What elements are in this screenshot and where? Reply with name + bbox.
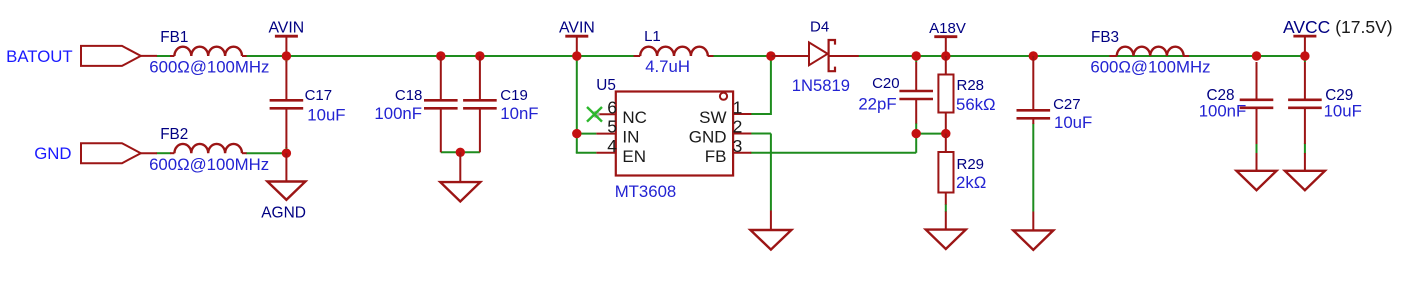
wire <box>246 152 288 154</box>
svg-text:C19: C19 <box>500 87 528 104</box>
svg-text:AVCC (17.5V): AVCC (17.5V) <box>1283 17 1393 37</box>
pin 3 FB <box>733 152 751 154</box>
capacitor C20 <box>915 62 917 90</box>
svg-text:100nF: 100nF <box>1199 102 1247 121</box>
node A18V junction <box>941 51 950 60</box>
pin 6 NC <box>596 113 615 115</box>
wire pin2 GND down <box>750 133 771 135</box>
ferrite bead FB3 <box>1109 55 1116 57</box>
wire C29 top stub <box>1304 56 1306 62</box>
svg-text:GND: GND <box>689 127 727 146</box>
ground C28 <box>1256 153 1258 171</box>
port GND <box>81 143 141 163</box>
ground R29 <box>945 212 947 230</box>
node AVIN junction <box>282 51 291 60</box>
node C28 junction <box>1252 51 1261 60</box>
svg-text:BATOUT: BATOUT <box>6 47 73 66</box>
wire C17 bottom stub <box>285 147 287 153</box>
svg-text:10uF: 10uF <box>307 106 345 125</box>
svg-text:600Ω@100MHz: 600Ω@100MHz <box>149 58 269 77</box>
svg-text:NC: NC <box>622 108 647 127</box>
diode D4 1N5819 <box>772 55 810 57</box>
svg-text:1N5819: 1N5819 <box>792 76 850 95</box>
svg-text:4: 4 <box>607 136 617 156</box>
wire <box>157 55 171 57</box>
wire C27 to ground <box>1032 124 1034 212</box>
power port A18V <box>934 35 957 38</box>
wire AVIN branch down to U5 <box>576 56 578 153</box>
pin 4 EN <box>596 152 615 154</box>
svg-text:C20: C20 <box>872 75 900 92</box>
wire C20 top stub <box>915 56 917 62</box>
svg-text:4.7uH: 4.7uH <box>645 57 690 76</box>
svg-text:C27: C27 <box>1053 96 1081 113</box>
node SW junction <box>766 51 775 60</box>
resistor R28 <box>945 56 947 75</box>
capacitor C17 <box>285 61 287 99</box>
svg-text:FB2: FB2 <box>160 126 188 143</box>
svg-text:C18: C18 <box>395 87 423 104</box>
svg-text:10uF: 10uF <box>1324 102 1362 121</box>
node R28/R29 junction <box>941 129 950 138</box>
wire to pin 4 <box>576 152 597 154</box>
wire pin1 SW up <box>750 113 771 115</box>
svg-text:100nF: 100nF <box>374 104 422 123</box>
svg-text:C17: C17 <box>305 87 333 104</box>
svg-text:AVIN: AVIN <box>559 19 595 36</box>
svg-text:6: 6 <box>607 98 617 118</box>
svg-text:U5: U5 <box>596 77 616 94</box>
svg-text:AGND: AGND <box>261 204 306 221</box>
wire C28 to ground <box>1256 143 1258 153</box>
svg-text:56kΩ: 56kΩ <box>956 95 996 114</box>
wire <box>157 152 171 154</box>
pin 2 GND <box>733 133 751 135</box>
capacitor C29 <box>1304 62 1306 99</box>
svg-text:GND: GND <box>34 144 71 163</box>
wire C20 to R28/R29 node <box>916 133 946 135</box>
wire C20 bottom stub <box>915 123 917 134</box>
svg-text:L1: L1 <box>644 28 661 45</box>
capacitor C27 <box>1032 56 1034 109</box>
svg-text:1: 1 <box>733 98 743 118</box>
power port AGND <box>285 153 287 181</box>
ferrite bead FB2 <box>170 152 174 154</box>
svg-text:2: 2 <box>733 117 743 137</box>
node AVIN/U5 junction <box>572 51 581 60</box>
capacitor C28 <box>1256 62 1258 99</box>
pin1 polarity circle <box>720 93 727 100</box>
svg-text:AVIN: AVIN <box>268 19 304 36</box>
svg-text:IN: IN <box>622 127 639 146</box>
pin 5 IN <box>596 133 615 135</box>
wire <box>246 55 634 57</box>
svg-text:3: 3 <box>733 136 743 156</box>
wire R29 bottom stub <box>945 204 947 212</box>
svg-text:2kΩ: 2kΩ <box>956 173 986 192</box>
node C20 top junction <box>912 51 921 60</box>
svg-text:R28: R28 <box>957 77 985 94</box>
wire <box>859 55 1305 57</box>
capacitor C19 <box>475 51 484 60</box>
ferrite bead FB1 <box>170 55 174 57</box>
resistor R29 <box>945 134 947 152</box>
port BATOUT <box>81 46 141 66</box>
svg-text:EN: EN <box>622 147 646 166</box>
power port AVIN (left) <box>275 35 298 38</box>
svg-text:FB: FB <box>705 147 727 166</box>
svg-text:600Ω@100MHz: 600Ω@100MHz <box>1090 58 1210 77</box>
svg-text:FB1: FB1 <box>160 29 188 46</box>
wire to pin 5 <box>577 133 597 135</box>
ground C29 <box>1304 153 1306 171</box>
svg-text:SW: SW <box>699 108 726 127</box>
ground C27 <box>1032 212 1034 231</box>
svg-text:5: 5 <box>607 117 617 137</box>
svg-text:A18V: A18V <box>929 20 966 37</box>
ground U5 pin2 <box>770 211 772 231</box>
svg-text:D4: D4 <box>810 19 829 36</box>
power port AVCC <box>1293 35 1316 38</box>
node pin5 junction <box>572 129 581 138</box>
node FB2/C17/AGND junction <box>282 149 291 158</box>
wire C17 top stub <box>285 56 287 62</box>
inductor L1 <box>634 55 641 57</box>
capacitor C18 <box>436 51 445 60</box>
IC U5 MT3608 body <box>616 92 733 176</box>
pin 1 SW <box>733 113 751 115</box>
power port AVIN (U5) <box>565 35 588 38</box>
ground C18/C19 <box>459 152 461 182</box>
node C18/C19 gnd junction <box>456 148 465 157</box>
no-connect X on pin 6 <box>592 111 599 118</box>
node C20 bottom junction <box>912 129 921 138</box>
wire pin3 FB to divider <box>750 152 916 154</box>
wire C29 to ground <box>1304 143 1306 153</box>
svg-text:MT3608: MT3608 <box>615 182 677 201</box>
svg-text:22pF: 22pF <box>858 95 896 114</box>
node C29/AVCC junction <box>1300 51 1309 60</box>
svg-text:10uF: 10uF <box>1054 113 1092 132</box>
svg-text:10nF: 10nF <box>500 104 538 123</box>
svg-text:600Ω@100MHz: 600Ω@100MHz <box>149 155 269 174</box>
svg-text:R29: R29 <box>957 156 985 173</box>
node C27 junction <box>1029 51 1038 60</box>
wire <box>713 55 772 57</box>
svg-text:FB3: FB3 <box>1091 29 1119 46</box>
wire C18-C19 bottom <box>441 151 480 153</box>
